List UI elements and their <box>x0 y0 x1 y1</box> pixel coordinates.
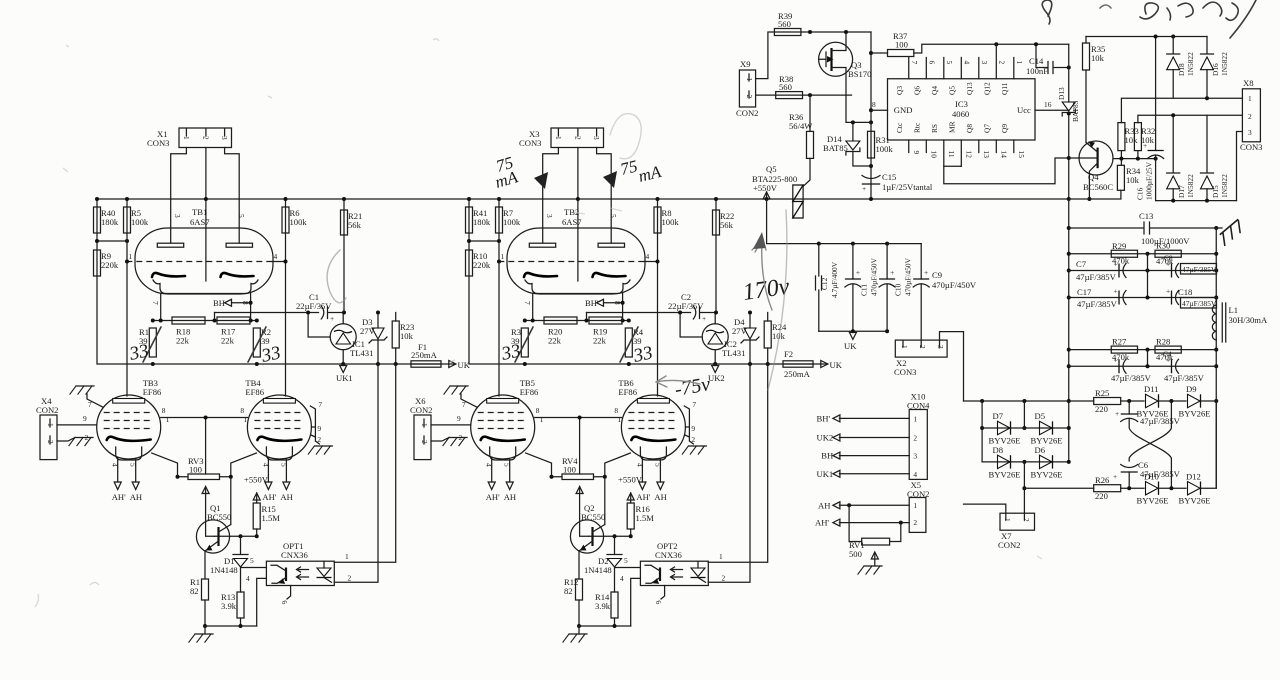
wire X pin1 to tube pin9 <box>57 424 97 426</box>
svg-text:TL431: TL431 <box>350 348 373 358</box>
svg-text:Ctc: Ctc <box>895 122 904 133</box>
resistor R5 <box>124 207 149 233</box>
wire cathode/heater pins down with arrows AH' AH <box>268 458 286 482</box>
fuse F1 250mA <box>411 342 441 367</box>
wire X pin2 to ground <box>57 438 75 442</box>
wire tap to RV wiper-body <box>579 418 581 475</box>
ground tube g3 pin7 <box>70 386 94 394</box>
svg-text:UK: UK <box>830 360 843 370</box>
svg-text:9: 9 <box>83 414 87 423</box>
svg-text:+: + <box>1113 472 1117 481</box>
svg-text:3: 3 <box>545 214 554 218</box>
wire RV wiper down to Q base <box>580 487 589 537</box>
pencil curve near F2 <box>768 210 787 390</box>
svg-text:5: 5 <box>609 214 618 218</box>
svg-text:6AS7: 6AS7 <box>190 217 210 227</box>
connector X10 CON4 <box>907 392 930 480</box>
node UK output arrow <box>821 361 828 368</box>
connector X3 CON3 <box>519 128 604 148</box>
svg-text:+: + <box>1115 409 1119 418</box>
svg-text:5: 5 <box>279 463 288 467</box>
svg-text:BAT85: BAT85 <box>1071 100 1080 122</box>
svg-text:1N5822: 1N5822 <box>1220 52 1229 76</box>
svg-text:BYV26E: BYV26E <box>989 469 1021 479</box>
svg-text:D9: D9 <box>1186 384 1197 394</box>
svg-text:Q5: Q5 <box>766 164 777 174</box>
wire feed to cap bank <box>767 199 922 244</box>
wire gate rail R38 to triac <box>804 95 811 186</box>
svg-text:10k: 10k <box>1091 53 1105 63</box>
svg-text:1: 1 <box>1003 518 1012 522</box>
svg-text:D5: D5 <box>1035 411 1046 421</box>
ground X pin2 <box>443 438 467 446</box>
rectifier diode D16 1N5822 <box>1201 37 1230 99</box>
wire Q emitter down to R82 <box>204 551 206 579</box>
capacitor C14 100nF <box>1026 44 1069 76</box>
wire strike mark R2 <box>620 327 638 362</box>
svg-text:56k: 56k <box>720 220 734 230</box>
wire RV left end to tube <box>526 453 562 477</box>
resistor R18 <box>172 317 205 346</box>
resistor R37 100 <box>871 31 1069 57</box>
svg-text:1: 1 <box>501 252 505 261</box>
wire X7 feed line <box>964 400 1094 402</box>
svg-text:+: + <box>856 268 860 277</box>
svg-text:10k: 10k <box>1125 135 1139 145</box>
svg-text:100k: 100k <box>662 217 680 227</box>
wire RV left end to tube <box>152 453 188 477</box>
rectifier diode D18 1N5822 <box>1167 37 1196 99</box>
svg-text:CON2: CON2 <box>410 405 432 415</box>
svg-text:1µF/25Vtantal: 1µF/25Vtantal <box>882 182 933 192</box>
svg-text:+: + <box>1114 287 1118 296</box>
svg-text:500: 500 <box>849 549 862 559</box>
IC U IC3 4060 <box>888 44 1036 166</box>
svg-text:EF86: EF86 <box>520 387 539 397</box>
svg-text:EF86: EF86 <box>245 387 264 397</box>
svg-text:4: 4 <box>646 252 650 261</box>
svg-text:9: 9 <box>912 151 921 155</box>
capacitor C9 470uF/450V <box>913 244 977 340</box>
rectifier diode D8 BYV26E <box>989 445 1021 480</box>
wire R33/R32 bottoms to C16 <box>1113 151 1156 166</box>
wire grid coupling line pins 8-1 <box>161 417 248 419</box>
svg-text:3: 3 <box>936 345 945 349</box>
svg-text:2: 2 <box>420 440 429 444</box>
svg-text:15: 15 <box>1017 151 1026 159</box>
wire cathode/heater pins down with arrows AH' AH <box>642 458 660 482</box>
svg-text:+: + <box>702 314 706 323</box>
svg-text:22µF/35V: 22µF/35V <box>668 301 704 311</box>
svg-text:1: 1 <box>913 501 917 510</box>
wire anode rail R5 to TB3 <box>126 199 128 396</box>
svg-text:2: 2 <box>722 574 726 583</box>
schottky diode D14 BAT85 <box>823 134 871 166</box>
resistor R1 82 <box>190 577 209 600</box>
capacitor C11 470&#181;F/450V <box>845 244 879 332</box>
wire tube right pins to ground <box>310 406 319 444</box>
svg-text:BS170: BS170 <box>848 69 871 79</box>
wire tap to RV wiper-body <box>205 418 207 475</box>
wire grid dashed line pins 1-4 <box>498 261 644 263</box>
svg-text:47µF/385V: 47µF/385V <box>1164 373 1205 383</box>
wire X-pin2 to heater center <box>205 148 207 282</box>
svg-text:BYV26E: BYV26E <box>1179 409 1211 419</box>
wire bottom line to fuse <box>525 363 828 365</box>
svg-text:AH: AH <box>130 492 142 502</box>
svg-text:220: 220 <box>1095 491 1108 501</box>
wire anode rail R6 to TB6 <box>657 199 659 396</box>
capacitor C19 47uF/385V <box>1111 355 1152 383</box>
capacitor C16 1000uF/25V <box>1136 37 1164 201</box>
resistor R20 <box>544 317 577 346</box>
svg-text:1: 1 <box>129 252 133 261</box>
resistor R1 <box>139 327 156 357</box>
svg-text:UK2: UK2 <box>708 373 725 383</box>
svg-text:100: 100 <box>189 465 202 475</box>
svg-text:X9: X9 <box>740 59 751 69</box>
potentiometer RV1 500 <box>849 505 901 559</box>
svg-text:BC560C: BC560C <box>1083 182 1113 192</box>
resistor R35 10k <box>1083 37 1106 142</box>
ground tube right <box>308 446 332 454</box>
svg-text:1: 1 <box>617 415 621 424</box>
svg-text:GND: GND <box>894 105 913 115</box>
svg-text:47µF/385V: 47µF/385V <box>1111 373 1152 383</box>
rectifier diode D5 BYV26E <box>1031 411 1063 446</box>
svg-text:UK1: UK1 <box>336 373 353 383</box>
svg-text:1.5M: 1.5M <box>636 513 655 523</box>
pentode tube TB5 EF86 <box>471 378 539 460</box>
svg-text:TB1: TB1 <box>192 207 207 217</box>
svg-text:Q11: Q11 <box>1000 82 1009 95</box>
wire Ucc pin16 <box>1035 109 1069 111</box>
wire bus to R34 rail <box>1069 190 1121 199</box>
svg-text:BH: BH <box>821 451 833 461</box>
wire left heater leg pin7 <box>160 294 162 321</box>
capacitor C17 47uF/385V <box>1077 287 1126 310</box>
svg-text:C10: C10 <box>894 283 903 296</box>
wire opto pin2 to zener rail <box>708 364 750 582</box>
transistor Q2 BC550 <box>570 503 605 553</box>
svg-text:7: 7 <box>523 301 532 305</box>
svg-text:4: 4 <box>485 463 494 467</box>
wire IC ref jog <box>680 313 702 338</box>
wire C7/C8 line <box>1069 270 1217 272</box>
svg-text:BYV26E: BYV26E <box>1137 496 1169 506</box>
resistor R6 <box>282 207 307 233</box>
pencil curve near TB2 <box>610 114 641 159</box>
svg-text:100k: 100k <box>131 217 149 227</box>
svg-text:1: 1 <box>745 78 754 82</box>
svg-text:CON4: CON4 <box>907 401 930 411</box>
svg-text:+: + <box>1143 141 1147 150</box>
node BH' feed <box>839 417 909 419</box>
svg-text:7: 7 <box>151 301 160 305</box>
resistor R13 3.9k <box>221 592 244 618</box>
svg-text:C15: C15 <box>882 172 896 182</box>
svg-text:11: 11 <box>947 151 956 158</box>
svg-text:4: 4 <box>111 463 120 467</box>
svg-text:100: 100 <box>563 465 576 475</box>
svg-text:4: 4 <box>962 61 971 65</box>
svg-text:56k: 56k <box>348 220 362 230</box>
svg-text:1: 1 <box>420 423 429 427</box>
svg-text:CON3: CON3 <box>1240 142 1262 152</box>
wire left heater leg pin7 <box>532 294 534 321</box>
resistor R8 <box>654 207 679 233</box>
connector X2 CON3 <box>894 340 947 377</box>
pentode tube TB6 EF86 <box>618 378 685 460</box>
svg-text:Ucc: Ucc <box>1017 105 1031 115</box>
svg-text:1: 1 <box>554 136 563 140</box>
svg-text:6AS7: 6AS7 <box>562 217 582 227</box>
svg-text:2: 2 <box>317 435 321 444</box>
wire X-pin3 to right plate <box>225 148 240 244</box>
resistor R40 <box>94 207 119 233</box>
svg-text:560: 560 <box>779 82 792 92</box>
svg-text:7: 7 <box>88 400 92 409</box>
svg-text:5: 5 <box>624 556 628 565</box>
svg-text:1: 1 <box>166 415 170 424</box>
wire anode rail R5 to TB5 <box>498 199 500 396</box>
svg-text:4: 4 <box>635 463 644 467</box>
svg-text:C7: C7 <box>1076 259 1087 269</box>
svg-text:100k: 100k <box>290 217 308 227</box>
wire bottom line to fuse <box>153 363 456 365</box>
svg-text:470µF/450V: 470µF/450V <box>904 257 913 296</box>
rectifier diode D15 1N5822 <box>1201 115 1230 200</box>
svg-text:+: + <box>1166 355 1170 364</box>
svg-text:10k: 10k <box>1126 175 1140 185</box>
resistor R31 100k <box>868 131 894 158</box>
ground main <box>189 634 213 642</box>
resistor R26 220 <box>1024 475 1144 501</box>
svg-text:D7: D7 <box>993 411 1004 421</box>
rectifier diode D9 BYV26E <box>1179 384 1211 419</box>
svg-text:8: 8 <box>536 406 540 415</box>
resistor R36 <box>789 112 814 158</box>
resistor R16 1.5M <box>627 493 654 537</box>
svg-text:1N5822: 1N5822 <box>1220 174 1229 198</box>
svg-text:EF86: EF86 <box>618 387 637 397</box>
ground tube g3 pin7 <box>444 386 468 394</box>
wire strike mark R1 <box>515 327 533 362</box>
wire opto pin1 to fuse rail <box>334 364 395 562</box>
optocoupler OPT2 CNX36 <box>640 541 708 586</box>
svg-text:BC550: BC550 <box>207 512 231 522</box>
svg-text:8: 8 <box>614 406 618 415</box>
svg-text:D12: D12 <box>1186 472 1201 482</box>
wire X8 pin2 line <box>1138 115 1243 122</box>
svg-text:Q13: Q13 <box>965 82 974 95</box>
shunt regulator IC1 TL431 <box>330 313 373 365</box>
svg-text:CON2: CON2 <box>998 540 1020 550</box>
wire opto pin4 <box>631 578 641 626</box>
wire strike mark R1 <box>143 327 161 362</box>
svg-text:47µF/385V: 47µF/385V <box>1077 299 1118 309</box>
wire Q3 source rail to D14 <box>846 95 853 141</box>
wire bridge top line <box>982 427 1069 429</box>
svg-text:AH': AH' <box>112 492 126 502</box>
svg-text:D16: D16 <box>1211 63 1220 76</box>
shunt regulator IC2 TL431 <box>702 313 745 365</box>
svg-text:+550V: +550V <box>618 475 643 485</box>
ground right top <box>1218 220 1245 245</box>
svg-text:D15: D15 <box>1211 185 1220 198</box>
node UK down arrow <box>849 332 856 339</box>
svg-text:+: + <box>1114 260 1118 269</box>
svg-text:470µF/450V: 470µF/450V <box>932 280 977 290</box>
svg-text:250mA: 250mA <box>411 350 438 360</box>
svg-text:R29: R29 <box>1112 241 1126 251</box>
wire bridge bottom line <box>982 461 1069 463</box>
node UK2 <box>712 366 719 373</box>
resistor R7 <box>496 207 521 233</box>
resistor R12 82 <box>564 577 583 600</box>
resistor R41 <box>466 207 491 233</box>
schottky diode D13 BAT85 <box>1057 44 1080 199</box>
svg-text:UK: UK <box>844 341 857 351</box>
resistor R21 <box>341 210 363 235</box>
svg-text:CNX36: CNX36 <box>281 550 308 560</box>
potentiometer RV4 100 <box>562 456 594 494</box>
transistor Q1 BC550 <box>196 503 231 553</box>
svg-text:3: 3 <box>592 136 601 140</box>
svg-text:47µF/385V: 47µF/385V <box>1182 265 1217 274</box>
svg-text:D10: D10 <box>1144 472 1159 482</box>
svg-text:EF86: EF86 <box>143 387 162 397</box>
svg-text:UK2: UK2 <box>817 433 834 443</box>
svg-text:AH': AH' <box>815 518 829 528</box>
svg-text:220k: 220k <box>473 260 491 270</box>
svg-text:CON3: CON3 <box>519 138 541 148</box>
MOSFET Q3 BS170 <box>819 32 872 95</box>
svg-text:BAT85: BAT85 <box>823 143 848 153</box>
wire C17/C18 line <box>1069 297 1217 299</box>
wire D1 to opto pin5 <box>615 567 641 592</box>
wire RV1 wiper to ground <box>874 553 876 567</box>
svg-text:5: 5 <box>250 556 254 565</box>
wire RV right end to tube and Q collector <box>594 453 631 525</box>
svg-text:4: 4 <box>246 574 250 583</box>
wire base node <box>589 535 631 537</box>
svg-text:CNX36: CNX36 <box>655 550 682 560</box>
triac Q5 BTA225-800 <box>752 164 803 218</box>
svg-text:1: 1 <box>1015 61 1024 65</box>
svg-text:AH': AH' <box>636 492 650 502</box>
optocoupler OPT1 CNX36 <box>266 541 334 586</box>
wire X9 pin1 to R39 line <box>756 32 871 79</box>
svg-text:4: 4 <box>261 463 270 467</box>
capacitor C2 22uF/35V <box>587 292 717 323</box>
svg-text:1.5M: 1.5M <box>262 513 281 523</box>
capacitor C7 47uF/385V <box>1076 259 1126 282</box>
wire Q4 base from D13 rail <box>1069 157 1080 159</box>
wire X-pin1 to left plate <box>543 148 559 244</box>
svg-text:R30: R30 <box>1156 241 1170 251</box>
svg-text:L1: L1 <box>1229 305 1239 315</box>
capacitor C8 47uF/385V <box>1166 260 1217 278</box>
wire rail R21 to IC <box>343 199 345 313</box>
resistor R19 <box>589 317 622 346</box>
connector X7 CON2 <box>998 513 1035 550</box>
svg-text:56/4W: 56/4W <box>789 121 813 131</box>
connector X5 CON2 <box>907 480 929 532</box>
capacitor C20 47uF/385V <box>1164 355 1205 383</box>
svg-text:Q9: Q9 <box>1000 124 1009 133</box>
resistor R25 220 <box>1094 388 1144 414</box>
resistor R9 <box>94 250 119 276</box>
wire bridge mid verticals <box>1023 401 1025 513</box>
twin-triode tube TB1 6AS7 <box>135 207 273 294</box>
svg-text:16: 16 <box>1044 100 1052 109</box>
node UK1 feed <box>839 473 909 475</box>
wire cathode resistor line <box>525 313 629 321</box>
ground X pin2 <box>69 438 93 446</box>
resistor R2 <box>253 327 271 357</box>
wire bridge left rail <box>981 401 983 462</box>
svg-text:22k: 22k <box>176 336 190 346</box>
wire grid dashed line pins 1-4 <box>126 261 272 263</box>
svg-text:Q3: Q3 <box>895 86 904 95</box>
svg-text:10: 10 <box>929 151 938 159</box>
svg-text:Q4: Q4 <box>930 86 939 95</box>
svg-text:9: 9 <box>691 424 695 433</box>
wire X2 pin3 out <box>940 332 964 401</box>
svg-text:+550V: +550V <box>753 183 778 193</box>
svg-text:180k: 180k <box>101 217 119 227</box>
wire rail R21 to IC <box>715 199 717 313</box>
svg-text:7: 7 <box>692 400 696 409</box>
svg-text:AH': AH' <box>262 492 276 502</box>
svg-text:1000µF/25V: 1000µF/25V <box>1145 161 1154 200</box>
wire X-pin1 to left plate <box>171 148 187 244</box>
ground main <box>563 634 587 642</box>
rectifier diode D10 BYV26E <box>1137 472 1169 506</box>
svg-text:5: 5 <box>503 463 512 467</box>
svg-text:2: 2 <box>202 136 211 140</box>
wire X8 pin1 line <box>1121 98 1242 122</box>
wire right rail <box>1215 228 1217 488</box>
svg-text:1: 1 <box>46 423 55 427</box>
svg-text:D17: D17 <box>1177 185 1186 198</box>
diode D1 1N4148 <box>210 536 254 575</box>
wire rail link <box>97 240 127 242</box>
svg-text:3.9k: 3.9k <box>595 601 611 611</box>
svg-text:+550V: +550V <box>244 475 269 485</box>
svg-text:D11: D11 <box>1144 384 1158 394</box>
node BH feed <box>839 455 909 457</box>
svg-text:2: 2 <box>1248 112 1252 121</box>
wire opto pin6 stub <box>287 586 291 600</box>
resistor R29 470k <box>1069 241 1217 266</box>
resistor R33 <box>1118 123 1139 151</box>
svg-text:AH: AH <box>280 492 292 502</box>
svg-text:4.7µF/400V: 4.7µF/400V <box>830 261 839 298</box>
svg-text:Q5: Q5 <box>947 86 956 95</box>
svg-text:CON2: CON2 <box>907 489 929 499</box>
svg-text:5: 5 <box>237 214 246 218</box>
capacitor C6 47uF/385V <box>1113 460 1181 488</box>
svg-text:AH: AH <box>654 492 666 502</box>
svg-text:R27: R27 <box>1112 337 1127 347</box>
rectifier diode D12 BYV26E <box>1179 472 1211 506</box>
wire right cathode leg pin8 and BH' tap <box>604 294 623 321</box>
svg-text:CON3: CON3 <box>894 367 916 377</box>
wire top-right feed line <box>1086 36 1207 38</box>
wire emitter ground line <box>205 625 257 627</box>
